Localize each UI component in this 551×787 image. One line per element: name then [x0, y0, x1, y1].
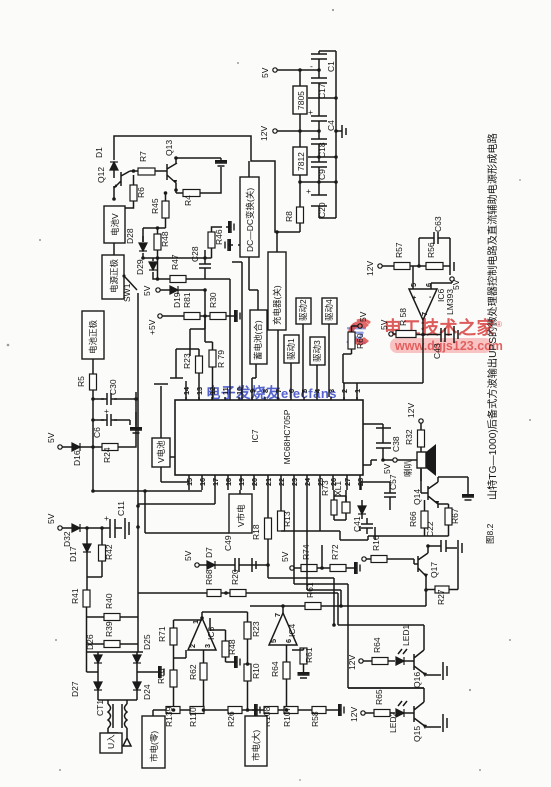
svg-text:D32: D32: [62, 531, 72, 547]
ground: [124, 518, 126, 539]
wire x=145 drop to V feeder: [145, 491, 229, 533]
svg-text:Q14: Q14: [412, 489, 422, 505]
svg-text:C49: C49: [223, 535, 233, 551]
svg-text:R48: R48: [160, 231, 170, 247]
resistor R71: [170, 628, 177, 645]
svg-text:18: 18: [224, 478, 233, 486]
resistor R64: [372, 658, 388, 665]
resistor R57: [394, 263, 410, 270]
svg-text:IC7: IC7: [250, 429, 260, 443]
svg-text:Q17: Q17: [429, 562, 439, 578]
svg-text:7805: 7805: [296, 91, 306, 110]
diode D8: [358, 506, 366, 514]
IC7 MC68HC705P body: [175, 400, 363, 475]
resistor R58b: [222, 641, 229, 657]
svg-text:CT1: CT1: [95, 700, 105, 716]
svg-text:R7: R7: [138, 151, 148, 162]
ground: [442, 714, 444, 732]
terminal 12V: [361, 711, 365, 715]
wire top rail y=593: [138, 592, 338, 594]
diode D28: [139, 243, 147, 251]
junction dots: [91, 397, 138, 449]
svg-text:R26: R26: [226, 711, 236, 727]
svg-text:R10: R10: [251, 663, 261, 679]
terminal +5V: [158, 314, 162, 318]
svg-text:7: 7: [273, 613, 282, 617]
regulator 7805: [293, 86, 307, 114]
svg-text:D7: D7: [204, 547, 214, 558]
ground: [225, 239, 233, 251]
svg-text:R 58: R 58: [398, 308, 408, 326]
svg-text:LM393: LM393: [445, 289, 455, 315]
svg-text:电池正极: 电池正极: [88, 319, 98, 354]
ground bar at pin14: [170, 377, 183, 379]
diode D32: [72, 524, 80, 532]
capacitor C9: [311, 157, 327, 182]
ground: [251, 558, 253, 572]
svg-text:R48: R48: [227, 639, 237, 655]
svg-text:DC—DC变换(关): DC—DC变换(关): [245, 188, 255, 252]
svg-text:R32: R32: [404, 429, 414, 445]
bridge diode D26: [94, 655, 102, 663]
svg-text:D26: D26: [85, 634, 95, 650]
resistor R72: [330, 565, 346, 572]
svg-text:D24: D24: [142, 684, 152, 700]
LED2: [396, 709, 404, 717]
resistor R67: [445, 508, 452, 525]
svg-text:10: 10: [235, 387, 244, 395]
svg-text:+: +: [306, 186, 311, 196]
wire top rail: [114, 136, 300, 232]
capacitor C20: [311, 182, 336, 218]
transistor Q14: [421, 469, 438, 508]
terminal 5V + diode D19: [156, 288, 160, 292]
svg-text:R66: R66: [408, 511, 418, 527]
IC bottom pin stubs: [189, 475, 360, 490]
svg-text:C20: C20: [317, 202, 327, 218]
svg-text:23: 23: [290, 478, 299, 486]
bridge diode D24: [133, 682, 141, 690]
svg-text:D16: D16: [72, 450, 82, 466]
svg-text:5V: 5V: [260, 67, 270, 78]
switch SW1: [125, 277, 138, 593]
capacitor C17: [311, 70, 327, 98]
resistor R79: [209, 350, 216, 367]
ground: [232, 310, 240, 322]
resistor R66: [421, 511, 428, 528]
svg-text:市电(大): 市电(大): [251, 730, 261, 761]
resistor R47: [170, 276, 186, 283]
resistor R6: [130, 185, 137, 201]
box DC-DC变换(关): [240, 177, 259, 257]
svg-text:D19: D19: [172, 292, 182, 308]
svg-text:喇叭: 喇叭: [403, 459, 413, 477]
IC bottom pin numbers: [185, 477, 365, 486]
svg-text:3: 3: [327, 389, 336, 393]
svg-text:R61: R61: [304, 647, 314, 663]
ground: [453, 326, 455, 343]
svg-text:C41: C41: [352, 516, 362, 532]
svg-text:C63: C63: [433, 216, 443, 232]
svg-text:+: +: [412, 293, 416, 302]
svg-text:5V: 5V: [183, 550, 193, 561]
svg-text:20: 20: [250, 478, 259, 486]
svg-text:R16: R16: [371, 535, 381, 551]
box 驱动4: [322, 298, 337, 324]
svg-text:驱动1: 驱动1: [286, 338, 296, 360]
svg-text:11: 11: [221, 387, 230, 395]
svg-text:1: 1: [353, 389, 362, 393]
svg-text:R74: R74: [301, 544, 311, 560]
svg-text:R70: R70: [156, 668, 166, 684]
capacitor C57: [384, 487, 396, 503]
wire 5V rail: [277, 51, 336, 218]
terminal 5V / diode D16: [58, 445, 62, 449]
svg-text:IC5: IC5: [206, 627, 216, 641]
ground: [336, 130, 342, 132]
terminal 5V + resistor R74: [290, 566, 294, 570]
resistor R46: [208, 232, 215, 248]
resistor R40: [104, 614, 120, 621]
svg-text:R73: R73: [320, 480, 330, 496]
transformer CT1: [98, 700, 137, 704]
box 驱动1: [284, 335, 299, 363]
svg-text:16: 16: [198, 478, 207, 486]
svg-text:R58: R58: [310, 711, 320, 727]
svg-text:3: 3: [203, 644, 212, 648]
svg-text:R68: R68: [204, 569, 214, 585]
svg-text:C11: C11: [116, 501, 126, 516]
svg-text:7: 7: [420, 312, 429, 316]
svg-text:市电(零): 市电(零): [149, 731, 159, 762]
junction dots: [298, 68, 338, 184]
terminal + resistor R58: [389, 332, 393, 336]
svg-text:LED1: LED1: [401, 624, 411, 646]
IC top pin stubs: [186, 397, 357, 400]
svg-text:12V: 12V: [406, 403, 416, 418]
battery box 电池V: [104, 206, 125, 243]
wire nest below IC: [268, 490, 368, 688]
terminal 12V: [359, 659, 363, 663]
svg-text:17: 17: [211, 478, 220, 486]
svg-text:C38: C38: [391, 436, 401, 452]
svg-text:7812: 7812: [296, 152, 306, 171]
terminal 5V: [58, 526, 62, 530]
svg-text:驱动4: 驱动4: [324, 299, 334, 321]
wire 12V rail: [277, 114, 319, 147]
resistor R56: [426, 263, 443, 270]
svg-text:R27: R27: [436, 589, 446, 605]
svg-text:R60: R60: [355, 333, 365, 349]
terminal 5V: [393, 458, 397, 462]
svg-text:12V: 12V: [365, 261, 375, 276]
resistor R27: [435, 586, 449, 593]
wire left rail bottom junctions: [136, 504, 140, 529]
resistor R23b: [244, 622, 251, 639]
svg-text:R72: R72: [330, 544, 340, 560]
LED1: [396, 657, 404, 665]
svg-text:R65: R65: [374, 689, 384, 705]
box V电池: [152, 438, 170, 467]
transistor Q17: [418, 546, 428, 590]
resistor R63: [300, 648, 307, 664]
wire collector to ground: [176, 158, 221, 193]
svg-text:C43: C43: [432, 343, 442, 359]
svg-text:2: 2: [340, 389, 349, 393]
svg-text:22: 22: [277, 478, 286, 486]
resistor R70: [170, 670, 177, 687]
svg-text:R13: R13: [282, 511, 292, 527]
resistor R20: [230, 590, 246, 597]
svg-text:电池V: 电池V: [110, 213, 120, 236]
svg-text:D29: D29: [135, 259, 145, 275]
wire to Q15 collector: [348, 688, 424, 702]
terminal + resistor R16: [362, 557, 366, 561]
junction dots: [85, 489, 104, 530]
svg-text:13: 13: [195, 387, 204, 395]
terminal 5V: [273, 68, 277, 72]
box 驱动2: [296, 298, 311, 324]
svg-text:山特TG—1000)后备式方波输出UPS的微处理器控制电路及: 山特TG—1000)后备式方波输出UPS的微处理器控制电路及直流辅助电源形成电路: [486, 133, 499, 500]
capacitor C49: [235, 558, 239, 572]
svg-text:R8: R8: [284, 211, 294, 222]
capacitor C43: [441, 328, 452, 342]
svg-text:R57: R57: [394, 242, 404, 258]
svg-text:R6: R6: [136, 187, 146, 198]
capacitor C18: [308, 131, 336, 157]
box 市电(大): [245, 716, 267, 766]
bridge wires: [87, 652, 157, 700]
svg-text:5V: 5V: [451, 279, 461, 290]
resistor R73 + crystal XL1: [331, 500, 337, 515]
speaker 喇叭: [417, 452, 426, 468]
svg-text:12V: 12V: [349, 707, 359, 722]
watermark red url: [390, 338, 492, 353]
svg-text:R30: R30: [208, 292, 218, 308]
svg-text:5V: 5V: [142, 285, 152, 296]
wire bus to comparator: [343, 383, 423, 400]
junction dots: [141, 256, 207, 281]
svg-text:R5: R5: [76, 376, 86, 387]
junction dots: [112, 156, 178, 201]
svg-text:D1: D1: [94, 147, 104, 158]
box 充电器(关): [268, 252, 286, 330]
svg-text:LED2: LED2: [388, 711, 398, 733]
resistor R8: [297, 207, 304, 223]
terminal 5V: [358, 324, 362, 328]
terminal 12V: [419, 419, 423, 423]
svg-text:5: 5: [300, 389, 309, 393]
wire: [300, 175, 336, 207]
resistor R81: [184, 313, 200, 320]
resistor R42: [99, 545, 106, 561]
svg-text:6: 6: [287, 389, 296, 393]
svg-text:5V: 5V: [280, 551, 290, 562]
svg-text:充电器(关): 充电器(关): [272, 285, 282, 325]
svg-text:C6: C6: [92, 427, 102, 438]
ground: [457, 540, 459, 557]
op-amp IC6: [409, 289, 437, 320]
resistor R24: [102, 444, 118, 451]
svg-text:C4: C4: [326, 120, 336, 131]
wire: [93, 359, 136, 447]
resistor R23: [196, 356, 203, 373]
svg-text:Q15: Q15: [412, 726, 422, 742]
svg-text:R4: R4: [183, 195, 193, 206]
wire y=491: [93, 447, 215, 504]
svg-text:+5V: +5V: [147, 319, 157, 335]
resistor R45: [162, 201, 169, 218]
bridge diode D25: [133, 655, 141, 663]
svg-text:R40: R40: [104, 593, 114, 609]
capacitor C28: [199, 258, 211, 274]
svg-text:5V: 5V: [46, 432, 56, 443]
svg-text:R110: R110: [188, 707, 198, 727]
box 市电(零): [142, 716, 165, 768]
svg-text:R42: R42: [104, 544, 114, 560]
svg-text:C30: C30: [108, 379, 118, 395]
svg-text:R67: R67: [450, 508, 460, 524]
capacitor C63: [428, 232, 444, 244]
svg-text:19: 19: [237, 478, 246, 486]
svg-text:C28: C28: [190, 246, 200, 262]
op-amp IC5: [188, 618, 216, 650]
svg-text:R23: R23: [251, 621, 261, 637]
diode D1: [110, 162, 118, 170]
svg-text:24: 24: [303, 477, 312, 486]
capacitor C22: [428, 540, 457, 552]
svg-text:5V: 5V: [358, 311, 368, 322]
ground: [442, 662, 444, 680]
svg-text:C17: C17: [317, 83, 327, 99]
terminal 5V + diode D7: [195, 563, 199, 567]
resistor R62: [200, 663, 207, 680]
svg-text:14: 14: [182, 386, 191, 395]
capacitor C38: [376, 428, 393, 460]
svg-text:R81: R81: [182, 292, 192, 308]
svg-text:驱动3: 驱动3: [312, 340, 322, 362]
svg-text:-: -: [310, 61, 313, 71]
svg-text:V电池: V电池: [156, 440, 166, 463]
svg-text:12: 12: [208, 387, 217, 395]
svg-text:C9: C9: [317, 169, 327, 180]
svg-text:R64: R64: [372, 637, 382, 653]
svg-text:R47: R47: [170, 254, 180, 270]
resistor R68: [207, 590, 221, 597]
ground: [130, 425, 142, 433]
svg-text:R45: R45: [150, 198, 160, 214]
capacitor C1: [311, 51, 327, 70]
resistor R10: [244, 664, 251, 681]
svg-text:R39: R39: [104, 621, 114, 637]
box V市电: [229, 494, 252, 533]
svg-text:8: 8: [261, 389, 270, 393]
resistor R5: [90, 374, 97, 390]
svg-text:www.dgjs123.com: www.dgjs123.com: [394, 339, 503, 353]
capacitor C6 +: [101, 414, 117, 426]
svg-text:5V: 5V: [46, 513, 56, 524]
resistor R41: [83, 590, 90, 607]
op-amp IC4: [269, 613, 297, 645]
resistor R4: [183, 190, 200, 197]
svg-text:5V: 5V: [379, 319, 389, 330]
resistor R7: [138, 168, 155, 175]
svg-text:+: +: [104, 513, 109, 523]
resistor R64v: [283, 662, 290, 679]
capacitor C11: [106, 519, 122, 538]
resistor R65: [374, 710, 390, 717]
transistor Q12: [114, 170, 130, 199]
svg-text:5V: 5V: [382, 463, 392, 474]
terminal 12V: [378, 264, 382, 268]
bottom row resistors R139 R110 R26: [153, 709, 252, 711]
terminal 12V: [273, 129, 277, 133]
svg-text:R18: R18: [251, 524, 261, 540]
svg-text:5: 5: [269, 639, 278, 643]
regulator 7812: [293, 147, 307, 175]
svg-text:D28: D28: [125, 228, 135, 244]
transistor Q16: [414, 626, 441, 675]
svg-text:SW1: SW1: [122, 283, 132, 302]
box 电源正极: [102, 255, 124, 299]
svg-text:驱动2: 驱动2: [298, 299, 308, 321]
resistor R13: [278, 511, 285, 531]
svg-text:MC68HC705P: MC68HC705P: [282, 409, 292, 464]
svg-text:9: 9: [248, 389, 257, 393]
svg-text:R46: R46: [214, 229, 224, 245]
svg-text:6: 6: [284, 639, 293, 643]
bridge diode D27: [94, 682, 102, 690]
resistor R30: [210, 313, 226, 320]
diode D17: [86, 528, 88, 544]
svg-text:27: 27: [343, 478, 352, 486]
svg-text:+: +: [104, 406, 109, 416]
svg-text:R41: R41: [70, 588, 80, 604]
svg-text:Q12: Q12: [96, 167, 106, 183]
svg-text:IC4: IC4: [287, 624, 297, 638]
ground: [215, 158, 227, 166]
capacitor C30: [101, 393, 117, 405]
wire down from R81/R30 node: [190, 316, 205, 356]
svg-text:R71: R71: [157, 626, 167, 642]
svg-text:12V: 12V: [259, 126, 269, 141]
resistor R61: [305, 603, 321, 610]
box 驱动3: [310, 337, 325, 365]
IC top pin numbers: [182, 386, 362, 395]
svg-text:R 79: R 79: [216, 350, 226, 368]
svg-text:R64: R64: [270, 661, 280, 677]
svg-text:Q13: Q13: [164, 140, 174, 156]
diode D29: [149, 262, 157, 270]
svg-text:R62: R62: [188, 664, 198, 680]
svg-text:R56: R56: [426, 242, 436, 258]
watermark red logo: [348, 320, 370, 345]
svg-text:2: 2: [188, 644, 197, 648]
svg-text:Q16: Q16: [412, 672, 422, 688]
capacitor C41: [361, 518, 373, 534]
svg-text:R23: R23: [182, 353, 192, 369]
ground: [226, 221, 234, 233]
svg-text:21: 21: [264, 478, 273, 486]
transistor Q13: [163, 158, 177, 190]
svg-text:电源正极: 电源正极: [109, 258, 119, 293]
svg-text:蓄电池(合): 蓄电池(合): [253, 320, 263, 360]
resistor R60: [348, 332, 355, 349]
resistor R18: [265, 518, 272, 539]
svg-text:C1: C1: [326, 61, 336, 72]
svg-text:图8.2: 图8.2: [485, 523, 495, 544]
resistor R32: [418, 430, 425, 447]
